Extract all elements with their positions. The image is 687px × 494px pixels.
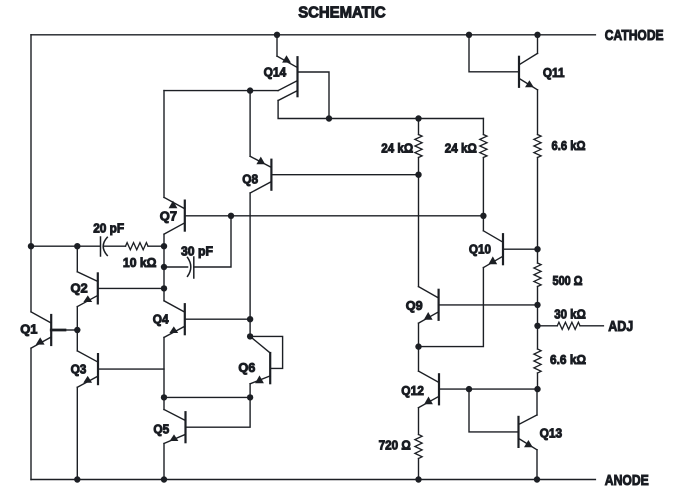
transistor Q7 (PNP, emitter up to node line) <box>164 197 185 234</box>
wire: left rail upper segment (Q1 collector to top rail) <box>30 35 32 312</box>
svg-text:24 kΩ: 24 kΩ <box>381 140 413 155</box>
wire: Q2 base line <box>98 287 164 289</box>
svg-text:Q14: Q14 <box>264 64 287 79</box>
svg-text:Q5: Q5 <box>153 421 169 436</box>
title SCHEMATIC <box>298 4 386 21</box>
wire: Q11 base from cathode tap <box>469 35 519 72</box>
label Q10 <box>469 242 491 257</box>
label Q5 <box>153 421 169 436</box>
svg-text:30 pF: 30 pF <box>181 243 213 258</box>
wire: Q3 collector lead up to Q1 base node <box>76 330 78 351</box>
resistor R 24k (left) with leads <box>415 119 422 175</box>
wire: left rail lower segment (Q1 emitter to anode rail) <box>30 348 32 479</box>
svg-text:Q13: Q13 <box>540 425 563 440</box>
label Q14 <box>264 64 287 79</box>
junction: Q2 base on ladder <box>161 285 167 291</box>
label Q2 <box>71 280 88 295</box>
svg-text:Q12: Q12 <box>401 383 424 398</box>
value label 20 pF <box>93 220 124 235</box>
junction: Q10 base / 6.6k / 500 node <box>534 246 540 252</box>
wire: right rail segment <box>537 305 539 326</box>
transistor Q1 (NPN in left rail) <box>31 312 51 348</box>
wire: Q9 collector column up to 24k bottom <box>418 175 420 287</box>
transistor Q14 (dual-collector PNP, emitter to cathode) <box>277 35 298 101</box>
label Q3 <box>71 361 87 376</box>
junction: Q13 base tap on Q12 base line <box>466 386 472 392</box>
svg-text:ADJ: ADJ <box>608 319 633 335</box>
junction: 720 resistor on anode rail <box>415 476 421 482</box>
junction: Q11 collector on cathode rail <box>534 32 540 38</box>
junction: emitter node right / Q5 base tap <box>247 394 253 400</box>
transistor Q8 (PNP, emitter up to node line) <box>250 156 271 193</box>
wire: Q5 base link from emitter node <box>186 397 251 427</box>
junction: 10k on ladder <box>161 243 167 249</box>
svg-text:SCHEMATIC: SCHEMATIC <box>298 4 386 21</box>
wire: Q3 emitter lead down to anode rail <box>76 387 78 479</box>
label Q9 <box>406 298 423 313</box>
resistor R 10k (horizontal) <box>126 243 149 250</box>
terminal label ADJ <box>608 319 633 335</box>
svg-text:Q2: Q2 <box>71 280 88 295</box>
wire: ANODE bottom rail (y=479.5) <box>31 479 595 481</box>
wire: ladder segment <box>163 246 165 267</box>
label Q12 <box>401 383 424 398</box>
wire: from left rail to 20pF capacitor <box>31 245 100 247</box>
value label 10 kOhm <box>123 255 157 270</box>
capacitor C 20pF <box>101 237 108 256</box>
wire: Q2 emitter lead down to Q1 base node <box>76 307 78 330</box>
wire: ladder segment to Q2 base <box>163 267 165 288</box>
svg-text:6.6 kΩ: 6.6 kΩ <box>550 352 586 367</box>
junction: Q9 emitter / Q10 emitter / Q12 collector <box>415 343 421 349</box>
label Q13 <box>540 425 563 440</box>
wire: ladder to 30pF capacitor <box>164 266 188 268</box>
wire: Q6 base tie loop to collector node <box>250 336 283 368</box>
wire: Q4 emitter lead down to emitter node line <box>163 337 165 397</box>
junction: Q2 collector on 20pF line <box>74 243 80 249</box>
junction: ADJ tap on right rail <box>534 323 540 329</box>
svg-text:6.6 kΩ: 6.6 kΩ <box>552 138 586 153</box>
junction: Q5 emitter on anode rail <box>161 476 167 482</box>
svg-text:24 kΩ: 24 kΩ <box>445 140 477 155</box>
svg-text:Q9: Q9 <box>406 298 423 313</box>
wire: Q13 collector lead up to right rail <box>536 389 538 415</box>
label Q7 <box>160 208 177 223</box>
wire: Q13 emitter lead down to anode rail <box>536 450 538 480</box>
wire: Q12 base line to right rail <box>439 388 538 390</box>
value label 6.6 kOhm (upper) <box>552 138 586 153</box>
wire: Q9 emitter lead down <box>418 323 420 346</box>
transistor Q9 (NPN, mirrored left) <box>419 287 439 324</box>
junction: Q8 emitter on node line <box>247 87 253 93</box>
wire: node line Q14 base / Q8 emitter / Q7 emitter (y=90.6) <box>164 90 278 92</box>
wire: ADJ lead to 30k <box>538 325 558 327</box>
wire: Q8 collector continues to Q6 collector node <box>249 319 251 336</box>
transistor Q5 (NPN, mirrored left) <box>164 410 186 444</box>
junction: Q6 collector node <box>247 333 253 339</box>
junction: 30pF branch on Q7 base line <box>228 213 234 219</box>
wire: Q11 emitter lead to 6.6k resistor <box>537 90 539 135</box>
terminal label ANODE <box>605 473 649 489</box>
wire: 30k to ADJ terminal <box>580 325 603 327</box>
wire: Q8 base line right to left-24k bottom <box>271 174 418 176</box>
wire: 10k to ladder <box>148 245 164 247</box>
junction: Q3 emitter on anode rail <box>74 476 80 482</box>
svg-text:Q8: Q8 <box>242 172 258 187</box>
svg-text:20 pF: 20 pF <box>93 220 124 235</box>
value label 24 kOhm (right) <box>445 140 477 155</box>
junction: Q1 base / Q2 emitter / Q3 collector <box>74 327 80 333</box>
wire: Q8 emitter lead down from node line <box>249 91 251 157</box>
wire: Q9 base line to right rail <box>439 304 538 306</box>
transistor Q13 (NPN) <box>519 415 538 450</box>
svg-text:Q11: Q11 <box>543 65 565 80</box>
resistor R 30k (horizontal, ADJ) <box>557 322 580 329</box>
transistor Q12 (NPN, mirrored left) <box>419 371 440 408</box>
junction: 20pF line on left rail <box>28 243 34 249</box>
wire: 30pF up to Q7 base line <box>194 216 231 267</box>
terminal label CATHODE <box>605 28 664 44</box>
wire: Q10 base line to right rail <box>503 248 538 250</box>
wire: Q5 collector lead up to emitter node <box>163 397 165 409</box>
junction: Q12 base line on right rail <box>534 386 540 392</box>
transistor Q11 (NPN, collector to cathode) <box>519 53 538 89</box>
junction: 30pF branch on ladder <box>161 264 167 270</box>
svg-text:CATHODE: CATHODE <box>605 28 664 44</box>
label Q11 <box>543 65 565 80</box>
capacitor C 30pF <box>188 257 194 278</box>
wire: Q10 emitter lead down and left to Q9 emitter node <box>419 268 484 347</box>
value label 720 Ohm <box>379 438 411 453</box>
wire: Q4 base line to Q8 collector column <box>185 318 250 320</box>
wire: Q12 collector lead up to Q9 emitter node <box>418 347 420 372</box>
svg-text:720 Ω: 720 Ω <box>379 438 411 453</box>
value label 30 pF <box>181 243 213 258</box>
svg-text:Q7: Q7 <box>160 208 177 223</box>
transistor Q6 (NPN, mirrored left, diode-connected) <box>250 336 270 383</box>
junction: Q14 emitter on cathode rail <box>274 32 280 38</box>
transistor Q3 (NPN, mirrored left) <box>77 351 98 387</box>
wire: Q5 emitter lead down to anode rail <box>163 444 165 480</box>
svg-text:Q3: Q3 <box>71 361 87 376</box>
value label 30 kOhm <box>554 306 586 321</box>
wire: Q7 base long line to right (y=215.8) <box>185 215 484 217</box>
svg-text:Q6: Q6 <box>238 360 255 375</box>
wire: Q14 collector A down-right to 24k top line <box>278 101 329 119</box>
label Q1 <box>20 321 37 336</box>
junction: Q14 collectors join on 24k top line <box>326 115 332 121</box>
svg-text:Q1: Q1 <box>20 321 37 336</box>
resistor R 500 (right rail) <box>534 249 541 305</box>
value label 500 Ohm <box>553 273 583 288</box>
wire: vertical from node line down to Q7 emitter <box>163 91 165 198</box>
svg-text:30 kΩ: 30 kΩ <box>554 306 586 321</box>
wire: Q3 base line to ladder column <box>98 368 164 370</box>
transistor Q4 (NPN, mirrored left) <box>164 301 185 338</box>
wire: emitter node line (y=397.4) <box>164 396 250 398</box>
wire: Q11 collector lead <box>537 35 539 54</box>
value label 6.6 kOhm (lower) <box>550 352 586 367</box>
resistor R 24k (right) with leads <box>480 119 487 216</box>
svg-text:ANODE: ANODE <box>605 473 649 489</box>
junction: Q9 base on right rail <box>534 302 540 308</box>
label Q4 <box>153 311 169 326</box>
wire: Q6 emitter lead down to emitter node line <box>249 384 251 398</box>
svg-text:500 Ω: 500 Ω <box>553 273 583 288</box>
svg-text:10 kΩ: 10 kΩ <box>123 255 157 270</box>
wire: 24k top line (y=118.5) from Q14 collectors to right 24k <box>329 118 483 120</box>
wire: Q13 base link from Q12 base line <box>469 389 519 432</box>
wire: CATHODE top rail (y=35) <box>31 34 595 36</box>
wire: Q1 base (thick) to node <box>51 329 77 332</box>
value label 24 kOhm (left) <box>381 140 413 155</box>
resistor R 6.6k (upper right, Q11 emitter) <box>534 135 541 250</box>
wire: Q14 collector B loop (right side) <box>298 72 330 119</box>
wire: Q8 collector lead down to Q4 base <box>249 193 251 319</box>
wire: ladder segment to Q4 collector <box>163 288 165 300</box>
wire: Q7 collector lead down the bias ladder <box>163 234 165 246</box>
junction: Q4 base on Q8 collector line <box>247 316 253 322</box>
junction: emitter node (Q4/Q5/Q6) left <box>161 394 167 400</box>
transistor Q10 (NPN, mirrored left) <box>483 231 503 268</box>
wire: Q10 collector lead up to Q7-base-line junction <box>482 216 484 231</box>
wire: 20pF to 10k resistor <box>104 245 126 247</box>
svg-text:Q10: Q10 <box>469 242 491 257</box>
junction: Q13 emitter on anode rail <box>534 476 540 482</box>
wire: Q2 collector lead up to 20pF line <box>76 246 78 272</box>
junction: Q11 base tap on cathode rail <box>466 32 472 38</box>
junction: Q7 base line / right 24k / Q10 collector <box>480 213 486 219</box>
resistor R 6.6k (lower right rail) <box>534 326 541 389</box>
transistor Q2 (NPN, mirrored left) <box>77 272 98 307</box>
label Q6 <box>238 360 255 375</box>
svg-text:Q4: Q4 <box>153 311 169 326</box>
resistor R 720 with Q12 emitter lead <box>415 408 422 480</box>
junction: left 24k top <box>415 115 421 121</box>
label Q8 <box>242 172 258 187</box>
junction: Q8 base / 24k bottom / Q9 collector column <box>415 172 421 178</box>
